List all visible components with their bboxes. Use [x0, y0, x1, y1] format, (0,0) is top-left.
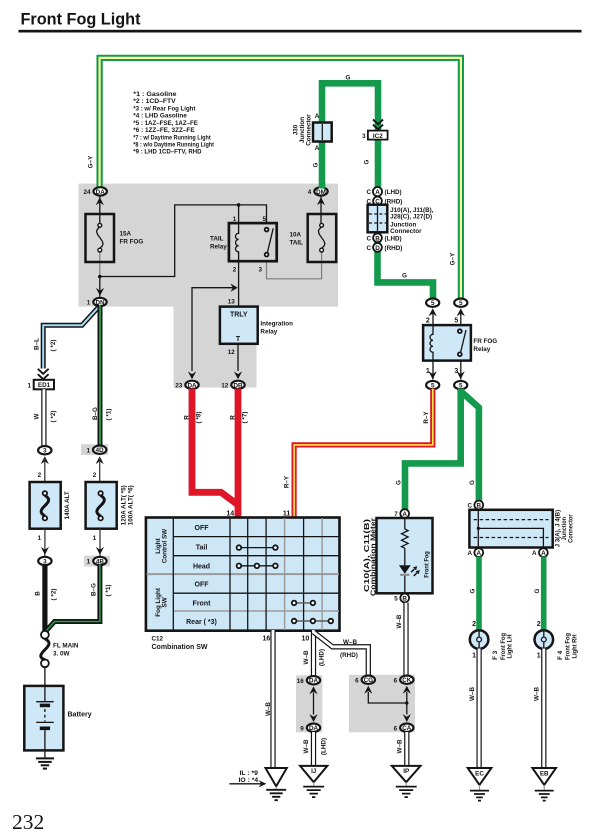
- connector 9(DA): [300, 714, 320, 732]
- svg-text:3: 3: [43, 448, 47, 455]
- fog light bulb F4 RH: [535, 621, 579, 660]
- meter C10(A),C11(B) Combination Meter: [363, 518, 433, 596]
- svg-text:Integration: Integration: [260, 321, 293, 328]
- svg-text:2: 2: [472, 621, 476, 628]
- connector 5 (pin1 out): [426, 371, 439, 389]
- svg-text:G: G: [469, 480, 476, 485]
- svg-text:1: 1: [233, 216, 237, 223]
- svg-text:C: C: [366, 189, 371, 196]
- svg-text:*1 : Gasoline: *1 : Gasoline: [133, 91, 177, 98]
- svg-text:( *1): ( *1): [105, 585, 112, 597]
- svg-text:232: 232: [12, 810, 44, 834]
- wire B-L from DN to ED1: [34, 306, 100, 369]
- svg-text:120A ALT( *5): 120A ALT( *5): [120, 485, 127, 525]
- svg-text:DA: DA: [187, 382, 197, 389]
- svg-text:2: 2: [38, 472, 42, 479]
- svg-text:6: 6: [394, 725, 398, 732]
- svg-text:EB: EB: [540, 771, 549, 778]
- wire relay pin 3 to connector 5: [460, 361, 462, 380]
- svg-text:5: 5: [394, 596, 398, 603]
- svg-text:3: 3: [362, 133, 366, 140]
- wire G from connector 5 to combination meter: [396, 389, 461, 511]
- svg-text:IC2: IC2: [373, 133, 383, 140]
- svg-text:A: A: [532, 550, 537, 557]
- svg-text:Connector: Connector: [390, 228, 422, 235]
- svg-text:140A ALT: 140A ALT: [64, 491, 71, 519]
- svg-text:A: A: [315, 145, 320, 152]
- svg-text:Rear ( *3): Rear ( *3): [186, 619, 217, 626]
- svg-text:OFF: OFF: [195, 525, 210, 532]
- gray relay block background: [79, 184, 339, 388]
- svg-text:12: 12: [228, 349, 236, 356]
- svg-text:FR FOG: FR FOG: [120, 239, 144, 246]
- svg-text:5: 5: [459, 383, 463, 390]
- arrow right at pin2 junction: [230, 284, 237, 292]
- wire W-B switch pin 16 to ground: [265, 630, 273, 768]
- svg-text:3: 3: [43, 558, 47, 565]
- svg-text:( *8): ( *8): [196, 412, 203, 424]
- svg-text:5: 5: [431, 300, 435, 307]
- connector 5 (relay pin2 side): [426, 299, 439, 317]
- svg-text:Front Fog Light: Front Fog Light: [21, 10, 141, 29]
- svg-text:16: 16: [297, 678, 305, 685]
- wire B-G from DN to 4D: [92, 306, 113, 447]
- wire W-B fog LH to ground EC: [469, 649, 479, 769]
- svg-text:5: 5: [263, 216, 267, 223]
- svg-text:2: 2: [537, 621, 541, 628]
- connector 1(4D): [86, 446, 106, 465]
- svg-text:G: G: [364, 159, 371, 164]
- svg-text:2: 2: [426, 318, 430, 325]
- ground EC: [468, 768, 492, 801]
- svg-text:ED1: ED1: [38, 382, 51, 389]
- wire W-B meter to CK: [396, 603, 406, 676]
- svg-text:( *2): ( *2): [50, 411, 57, 423]
- connector C(B) J3: [467, 501, 483, 510]
- junction node CG/CK: [405, 701, 408, 704]
- wire W-B 9(DA) to ground IJ: [303, 732, 327, 766]
- svg-text:W: W: [34, 413, 41, 419]
- wire fuse 120A to connector 4B: [99, 529, 101, 556]
- svg-text:F 4: F 4: [557, 650, 564, 660]
- svg-text:Relay: Relay: [210, 244, 227, 251]
- svg-text:1: 1: [87, 559, 91, 566]
- svg-text:DM: DM: [316, 189, 326, 196]
- svg-text:16: 16: [263, 636, 271, 643]
- svg-text:DA: DA: [309, 678, 319, 685]
- wire fuse 140A to connector 3 lower: [44, 529, 46, 556]
- svg-text:CA: CA: [402, 725, 412, 732]
- connector 16(DA): [297, 676, 320, 694]
- wire W-B fog RH to ground EB: [534, 649, 544, 769]
- svg-text:Battery: Battery: [68, 712, 92, 719]
- svg-text:24: 24: [83, 189, 91, 196]
- svg-text:14: 14: [226, 510, 234, 517]
- connector A(A) J3 left: [467, 548, 483, 557]
- switch contacts Head row: [237, 564, 278, 569]
- title underline: [19, 30, 582, 33]
- svg-text:SW: SW: [162, 597, 169, 607]
- connector 12(DB): [221, 371, 244, 389]
- svg-text:Light RH: Light RH: [571, 634, 578, 658]
- svg-text:DA: DA: [96, 189, 106, 196]
- svg-text:*6 : 1ZZ–FE, 3ZZ–FE: *6 : 1ZZ–FE, 3ZZ–FE: [133, 127, 194, 134]
- connector 1(DN): [87, 288, 107, 307]
- svg-text:3: 3: [259, 266, 263, 273]
- wire B-G from connector 4B to FL MAIN: [47, 565, 113, 631]
- svg-text:12: 12: [221, 383, 229, 390]
- svg-text:(RHD): (RHD): [385, 245, 403, 252]
- switch contacts Rear row: [292, 619, 333, 624]
- svg-text:C12: C12: [152, 636, 164, 643]
- wire DA to DA internal: [313, 693, 315, 715]
- svg-text:9: 9: [300, 725, 304, 732]
- svg-text:*7 : w/ Daytime Running Light: *7 : w/ Daytime Running Light: [133, 134, 211, 141]
- node 3 IC2: [362, 131, 387, 140]
- svg-text:Relay: Relay: [473, 346, 490, 353]
- svg-text:4B: 4B: [96, 558, 105, 565]
- svg-text:FR FOG: FR FOG: [473, 338, 497, 345]
- svg-text:R: R: [184, 415, 191, 420]
- chevron arrow into IC2: [373, 120, 383, 130]
- svg-text:Light LH: Light LH: [507, 634, 514, 658]
- svg-text:C: C: [366, 236, 371, 243]
- svg-text:B: B: [402, 595, 407, 602]
- wire DA to fuse 15A: [99, 195, 101, 224]
- wire relay pin 1 to connector 5: [432, 361, 434, 380]
- connector 5(B) meter: [394, 594, 409, 603]
- wire CG-CK to CA internal: [368, 692, 407, 715]
- connector 4(DM): [308, 187, 328, 205]
- connector 3 lower: [38, 547, 51, 566]
- svg-text:A: A: [467, 550, 472, 557]
- wire DM to fuse 10A: [320, 195, 322, 224]
- svg-text:G–Y: G–Y: [450, 252, 457, 265]
- svg-text:1: 1: [426, 368, 430, 375]
- svg-text:R–Y: R–Y: [284, 475, 291, 488]
- wire W-B switch pin 10 to 16(DA): [303, 630, 325, 676]
- svg-text:*2 : 1CD–FTV: *2 : 1CD–FTV: [133, 98, 176, 105]
- svg-text:4: 4: [308, 189, 312, 196]
- connector 5 (pin3 out): [454, 371, 467, 389]
- svg-text:B: B: [477, 502, 482, 509]
- svg-text:A: A: [315, 113, 320, 120]
- wire FL MAIN to battery: [44, 667, 46, 686]
- gray box behind DA-DA connectors: [296, 675, 322, 732]
- junction node below fuse 15A: [98, 275, 102, 279]
- svg-text:G: G: [402, 273, 407, 280]
- wire G thick: DM up through J30, across, down to IC2 and junction connector: [322, 83, 378, 188]
- wire connector 5 to relay pin 2: [432, 310, 434, 325]
- legend note list: [133, 91, 214, 156]
- svg-text:1: 1: [87, 300, 91, 307]
- connector 1(4B): [87, 547, 107, 566]
- svg-text:B–G: B–G: [91, 583, 98, 596]
- ground IL/IO (switch pin 16): [266, 768, 287, 800]
- junction connector J30: [293, 113, 332, 152]
- wire G thick through J10 to FR FOG relay: [378, 230, 434, 300]
- svg-text:*3 : w/ Rear Fog Light: *3 : w/ Rear Fog Light: [133, 105, 196, 112]
- wire G to fog light LH: [470, 557, 480, 631]
- svg-text:( *1): ( *1): [106, 409, 113, 421]
- wire R from 23(DA) to switch: [184, 389, 238, 505]
- svg-text:5: 5: [454, 318, 458, 325]
- svg-text:CK: CK: [402, 677, 412, 684]
- svg-text:W–B: W–B: [303, 739, 310, 753]
- relay TRLY Integration Relay: [220, 299, 293, 356]
- ground IP: [392, 766, 421, 797]
- fuse 120A/100A ALT: [86, 482, 135, 529]
- svg-text:23: 23: [175, 383, 183, 390]
- wire connector 5 to relay pin 5: [460, 310, 462, 325]
- svg-text:IJ: IJ: [311, 768, 317, 775]
- svg-text:EC: EC: [475, 771, 484, 778]
- svg-text:F 3: F 3: [492, 650, 499, 660]
- svg-text:Combination Meter: Combination Meter: [370, 518, 378, 596]
- wire G-Y loop from node DA to node 5 (top border): [100, 58, 461, 300]
- svg-text:Front Fog: Front Fog: [424, 551, 431, 578]
- svg-text:A: A: [541, 550, 546, 557]
- wire connector 3 to fuse 140A: [44, 458, 46, 488]
- wire B from connector 3 to FL MAIN: [35, 565, 58, 633]
- svg-text:IO : *4: IO : *4: [239, 777, 259, 784]
- battery: [24, 686, 91, 751]
- connector C(B)(LHD): [366, 234, 401, 243]
- wire W-B branch (RHD) to 6(CG): [314, 632, 369, 676]
- svg-text:5: 5: [431, 383, 435, 390]
- relay TAIL Relay: [210, 216, 277, 273]
- svg-text:B: B: [35, 591, 42, 596]
- wire TAIL relay pin3 to fuse 10A: [267, 252, 322, 279]
- connector 6(CG): [355, 676, 375, 694]
- junction connector J3(A),J4(B): [469, 510, 574, 548]
- wire connector 4D to fuse 120A: [99, 458, 101, 488]
- svg-text:G: G: [313, 162, 320, 167]
- svg-text:1: 1: [27, 382, 31, 389]
- gray tag behind connector 1(4B): [84, 556, 110, 567]
- svg-text:DA: DA: [309, 725, 319, 732]
- svg-text:DB: DB: [233, 382, 243, 389]
- svg-text:G: G: [396, 480, 403, 485]
- svg-text:2: 2: [93, 472, 97, 479]
- svg-text:2: 2: [233, 266, 237, 273]
- svg-text:W–B: W–B: [469, 687, 476, 701]
- svg-text:Connector: Connector: [568, 514, 575, 543]
- svg-text:15A: 15A: [120, 231, 132, 238]
- svg-text:3: 3: [454, 368, 458, 375]
- annotation arrow IL/IO: [230, 770, 267, 787]
- connector 3 upper: [38, 446, 51, 464]
- junction connector J10/J11/J28/J27: [368, 205, 434, 235]
- svg-text:B–L: B–L: [34, 338, 41, 350]
- svg-text:FL MAIN: FL MAIN: [53, 643, 79, 650]
- switch contacts Front row: [292, 601, 315, 606]
- svg-text:( *2): ( *2): [51, 589, 58, 601]
- svg-text:10: 10: [302, 636, 310, 643]
- svg-text:( *2): ( *2): [50, 340, 57, 352]
- svg-text:4D: 4D: [96, 447, 105, 454]
- ground below battery: [36, 750, 54, 768]
- junction node at pin1: [237, 203, 241, 207]
- svg-text:G: G: [534, 588, 541, 593]
- connector 6(CK): [394, 676, 414, 694]
- connector 7(A) meter: [394, 509, 409, 518]
- svg-text:Head: Head: [193, 563, 210, 570]
- svg-text:10A: 10A: [290, 232, 302, 239]
- connector C(C)(RHD): [366, 197, 402, 206]
- connector C(A)(LHD): [366, 187, 401, 196]
- wire R-Y from connector 5 to switch pin 11: [284, 389, 433, 519]
- fuse 140A ALT: [30, 482, 72, 529]
- connector 24(DA): [83, 187, 106, 205]
- svg-text:A: A: [477, 550, 482, 557]
- svg-text:*8 : w/o Daytime Running Light: *8 : w/o Daytime Running Light: [133, 142, 214, 149]
- svg-text:100A ALT( *6): 100A ALT( *6): [128, 485, 135, 525]
- svg-text:IP: IP: [403, 768, 409, 775]
- svg-text:W–B: W–B: [397, 739, 404, 753]
- svg-text:W–B: W–B: [343, 639, 357, 646]
- svg-text:A: A: [375, 189, 380, 196]
- switch contacts Tail row: [237, 545, 278, 550]
- svg-text:1: 1: [472, 653, 476, 660]
- wire branch to connector 23(DA): [192, 288, 233, 371]
- svg-text:Combination SW: Combination SW: [152, 644, 208, 651]
- connector A(A) J3 right: [532, 548, 548, 557]
- svg-text:W–B: W–B: [265, 702, 272, 716]
- svg-text:1: 1: [537, 653, 541, 660]
- svg-text:(RHD): (RHD): [340, 652, 358, 659]
- svg-text:G–Y: G–Y: [88, 155, 95, 168]
- svg-text:W–B: W–B: [396, 614, 403, 628]
- svg-text:1: 1: [86, 447, 90, 454]
- connector 5 (relay pin5 side): [454, 299, 467, 317]
- svg-text:B: B: [375, 235, 380, 242]
- svg-text:5: 5: [459, 300, 463, 307]
- wire junction to TAIL relay feed: [100, 205, 267, 277]
- switch C12 Combination SW: [146, 518, 340, 631]
- wire R from 12(DB) to switch pin 14: [230, 389, 249, 521]
- wire TAIL relay pin2 to TRLY pin13: [238, 261, 240, 306]
- svg-text:B–G: B–G: [92, 407, 99, 420]
- svg-text:TAIL: TAIL: [210, 236, 224, 243]
- svg-text:Front: Front: [193, 600, 212, 607]
- wire fuse 15A to DN: [99, 252, 101, 277]
- wire W from ED1 to connector 3: [34, 389, 58, 446]
- fuse 15A FR FOG: [86, 214, 144, 262]
- svg-text:R: R: [230, 415, 237, 420]
- svg-text:C: C: [366, 245, 371, 252]
- svg-text:(LHD): (LHD): [318, 649, 325, 666]
- fog light bulb F3 LH: [470, 621, 514, 660]
- svg-text:(LHD): (LHD): [320, 738, 327, 755]
- svg-text:(LHD): (LHD): [385, 236, 402, 243]
- svg-text:Relay: Relay: [260, 329, 277, 336]
- gray box behind CG-CK-CA connectors: [349, 675, 415, 732]
- connector 6(CA): [394, 714, 414, 732]
- svg-text:R–Y: R–Y: [423, 411, 430, 424]
- svg-text:Tail: Tail: [196, 545, 208, 552]
- relay FR FOG Relay: [423, 325, 497, 361]
- fusible link FL MAIN 3.0W: [41, 631, 79, 667]
- svg-text:3. 0W: 3. 0W: [53, 651, 70, 658]
- svg-text:CG: CG: [364, 677, 374, 684]
- svg-text:T: T: [236, 336, 241, 343]
- chevron arrow into ED1: [38, 369, 49, 379]
- svg-text:J28(C), J27(D): J28(C), J27(D): [390, 214, 432, 221]
- wire W-B 6(CA) to ground IP: [397, 732, 407, 766]
- svg-text:1: 1: [38, 535, 42, 542]
- gray tag behind connector 1(4D): [81, 444, 108, 455]
- svg-text:*4 : LHD Gasoline: *4 : LHD Gasoline: [133, 113, 187, 120]
- svg-text:13: 13: [228, 299, 236, 306]
- svg-text:6: 6: [394, 677, 398, 684]
- wire G to fog light RH: [534, 557, 544, 631]
- wire TAIL relay pin1 drop: [238, 205, 240, 223]
- connector C(D)(RHD): [366, 243, 402, 252]
- svg-text:TAIL: TAIL: [290, 240, 304, 247]
- svg-text:W–B: W–B: [534, 687, 541, 701]
- svg-text:*5 : 1AZ–FSE, 1AZ–FE: *5 : 1AZ–FSE, 1AZ–FE: [133, 120, 198, 127]
- svg-text:11: 11: [283, 510, 291, 517]
- svg-text:TRLY: TRLY: [230, 312, 248, 319]
- wire G from connector 5 to junction connector J3: [461, 389, 479, 502]
- svg-text:Control SW: Control SW: [162, 529, 169, 563]
- svg-text:6: 6: [355, 677, 359, 684]
- svg-text:(LHD): (LHD): [385, 189, 402, 196]
- svg-text:G: G: [470, 588, 477, 593]
- svg-text:1: 1: [93, 535, 97, 542]
- ground IJ: [300, 766, 327, 797]
- svg-text:( *7): ( *7): [242, 412, 249, 424]
- svg-text:G: G: [346, 75, 351, 82]
- svg-text:OFF: OFF: [195, 582, 210, 589]
- connector 23(DA): [175, 371, 198, 389]
- svg-text:D: D: [375, 245, 380, 252]
- node 1 ED1: [27, 380, 54, 390]
- svg-text:*9 : LHD 1CD–FTV, RHD: *9 : LHD 1CD–FTV, RHD: [133, 149, 202, 156]
- ground EB: [532, 768, 556, 801]
- wire TRLY pin12 to connector 12(DB): [237, 344, 239, 371]
- svg-text:W–B: W–B: [303, 650, 310, 664]
- svg-text:Connector: Connector: [305, 114, 312, 146]
- fuse 10A TAIL: [290, 214, 337, 262]
